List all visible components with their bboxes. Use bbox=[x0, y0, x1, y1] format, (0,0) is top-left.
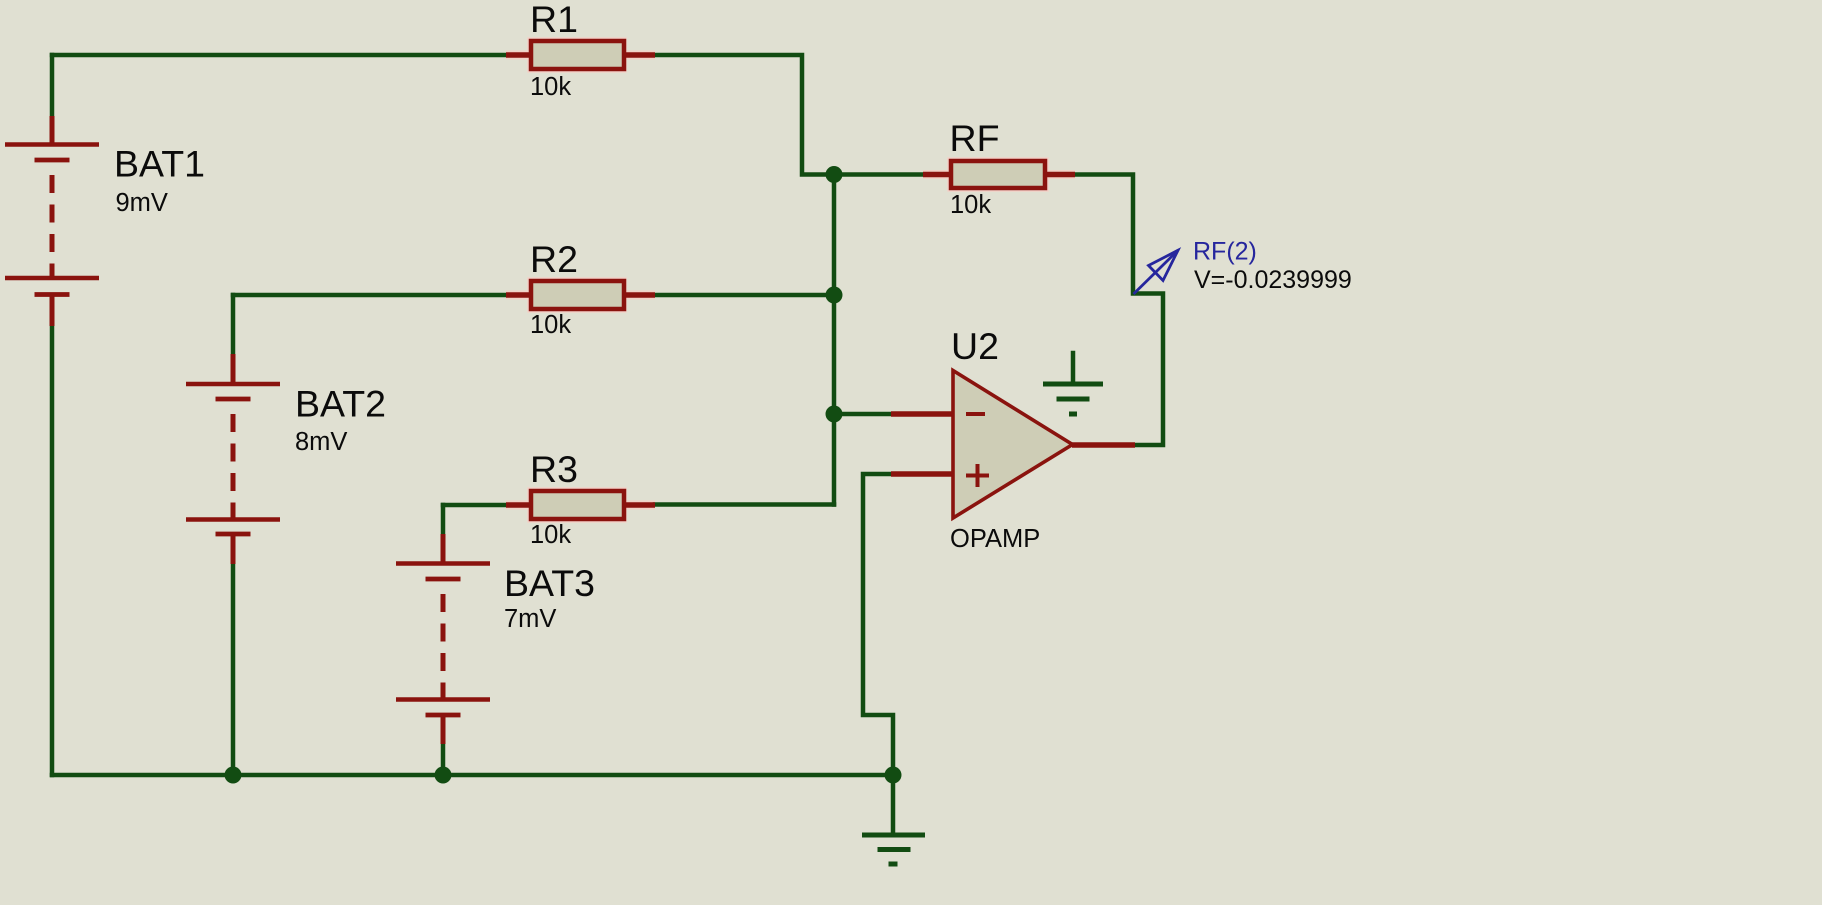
svg-text:RF(2): RF(2) bbox=[1193, 238, 1257, 266]
svg-text:OPAMP: OPAMP bbox=[950, 525, 1040, 553]
svg-text:R2: R2 bbox=[530, 238, 578, 280]
svg-text:R1: R1 bbox=[530, 0, 578, 40]
svg-text:V=-0.0239999: V=-0.0239999 bbox=[1194, 266, 1352, 294]
svg-text:10k: 10k bbox=[530, 73, 571, 101]
svg-text:7mV: 7mV bbox=[504, 605, 556, 633]
svg-text:10k: 10k bbox=[530, 311, 571, 339]
svg-text:BAT3: BAT3 bbox=[504, 562, 595, 604]
svg-text:BAT2: BAT2 bbox=[295, 383, 386, 425]
svg-text:8mV: 8mV bbox=[295, 428, 347, 456]
svg-text:U2: U2 bbox=[951, 325, 999, 367]
svg-text:R3: R3 bbox=[530, 448, 578, 490]
svg-text:9mV: 9mV bbox=[116, 189, 168, 217]
svg-text:RF: RF bbox=[950, 117, 1000, 159]
svg-text:BAT1: BAT1 bbox=[114, 143, 205, 185]
svg-text:10k: 10k bbox=[950, 191, 991, 219]
svg-text:10k: 10k bbox=[530, 521, 571, 549]
